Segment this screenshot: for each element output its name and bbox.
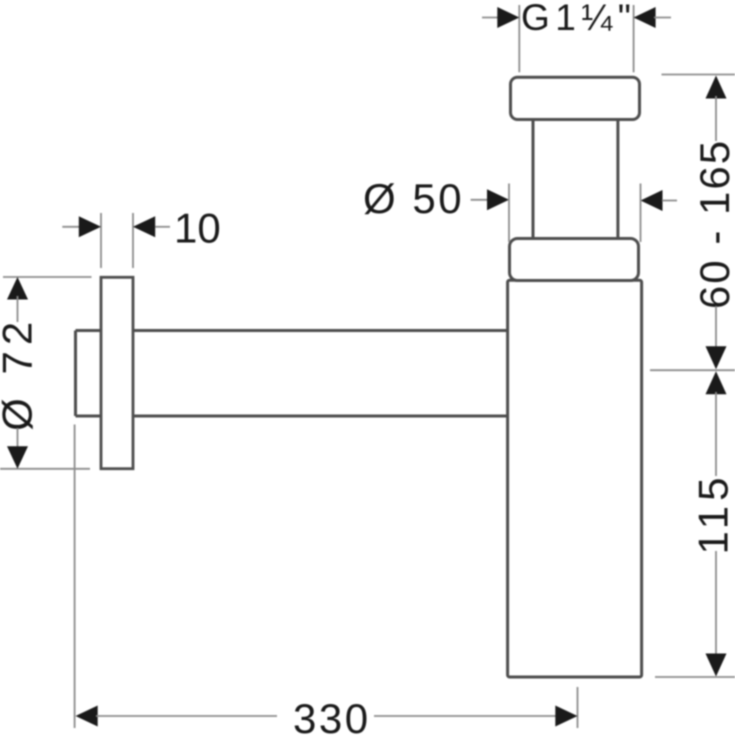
dim115 tick bottom: [655, 676, 735, 678]
dim60-165 arrow up: [706, 76, 727, 99]
dim60-165 arrow down: [706, 346, 727, 369]
dim10 arrow right: [133, 216, 155, 237]
trap body (bottle cylinder): [508, 280, 642, 677]
svg-text:115: 115: [690, 473, 735, 555]
dim115 arrow down: [706, 654, 727, 677]
dim330 arrow left: [76, 706, 98, 727]
svg-text:330: 330: [293, 695, 371, 735]
dim330 extension line right: [577, 687, 579, 728]
dim60-165 tick top: [662, 74, 735, 76]
union nut G 1 1/4: [511, 77, 640, 119]
vertical inlet pipe: [533, 121, 618, 239]
dia72 tick bottom: [0, 468, 90, 470]
dim330 extension line left: [74, 425, 76, 729]
dia72 arrow up: [7, 277, 28, 300]
dia50 extension line right: [640, 184, 642, 243]
svg-text:Ø 50: Ø 50: [363, 175, 464, 222]
G 1 1/4 extension line left: [518, 5, 520, 72]
dim60-165 dim line upper: [715, 96, 717, 141]
dim10 extension line left: [100, 213, 102, 268]
wall flange: [101, 277, 133, 468]
dim330 dim line left: [96, 715, 277, 717]
dia72 dim line lower: [17, 428, 19, 450]
dia72 tick top: [3, 276, 92, 278]
dia72 dim line upper: [17, 296, 19, 322]
dim10 extension line right: [132, 213, 134, 268]
dim115 dim line lower: [715, 551, 717, 656]
dia50 arrow right: [641, 190, 663, 211]
dim60-165 dim line lower: [715, 306, 717, 349]
dia50 leader line left: [471, 199, 487, 201]
dim330 arrow right: [555, 706, 577, 727]
svg-text:10: 10: [174, 205, 221, 252]
dia72 arrow down: [7, 446, 28, 469]
G 1 1/4 arrow left: [497, 7, 519, 28]
dim10 arrow left: [79, 216, 101, 237]
G 1 1/4 extension line right: [633, 5, 635, 72]
dim115 arrow up: [706, 371, 727, 394]
dim10 leader line left: [62, 226, 80, 228]
svg-text:Ø 72: Ø 72: [0, 316, 41, 431]
svg-text:G1¼": G1¼": [521, 0, 636, 38]
G 1 1/4 arrow right: [634, 7, 656, 28]
mid tick (pipe axis): [650, 369, 735, 371]
horizontal outlet pipe: [76, 331, 508, 417]
dim115 dim line upper: [715, 392, 717, 476]
dim330 dim line right: [374, 715, 556, 717]
svg-text:60 - 165: 60 - 165: [691, 139, 735, 309]
dim10 leader line right: [155, 226, 170, 228]
G 1 1/4 leader line left: [482, 17, 499, 19]
slip-nut collar: [510, 239, 639, 281]
dia50 leader line right: [662, 200, 677, 202]
G 1 1/4 leader line right: [654, 17, 671, 19]
dia50 arrow left: [487, 189, 509, 210]
dia50 extension line left: [508, 184, 510, 243]
